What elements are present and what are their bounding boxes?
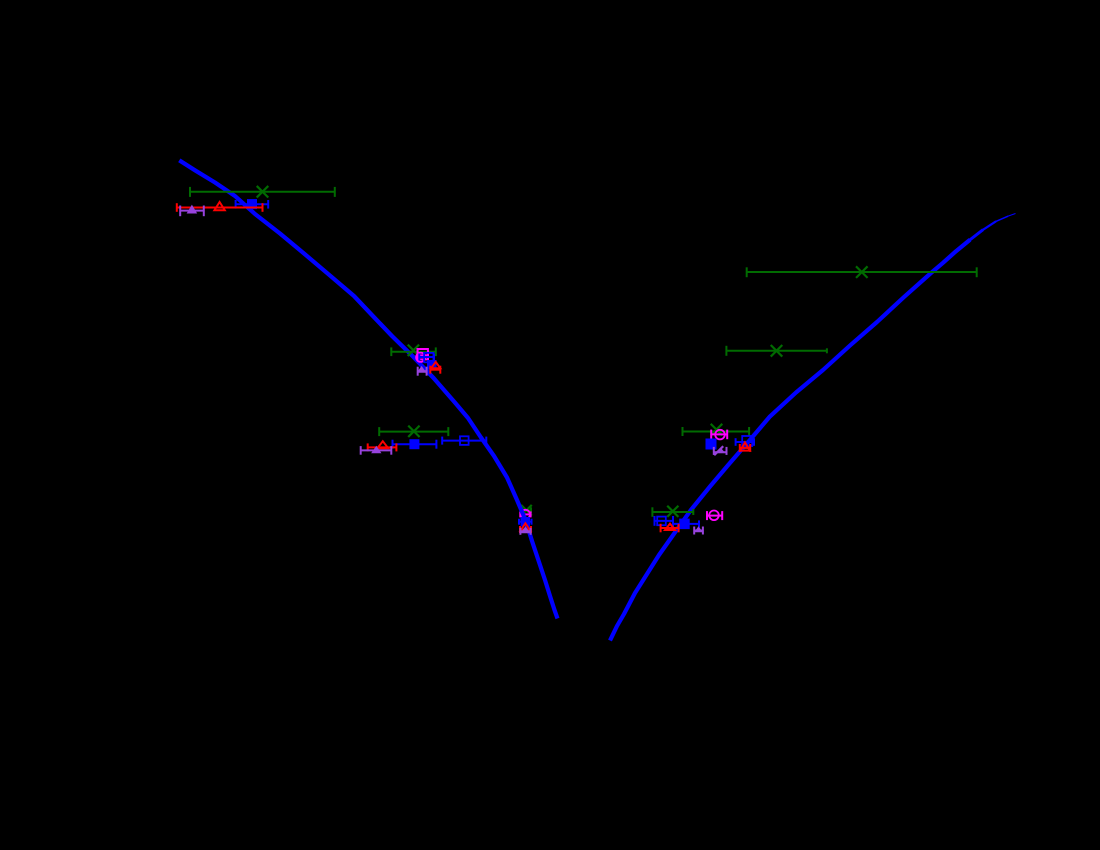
cluster1 blue filled square [247, 199, 257, 209]
cluster2 blue filled square [427, 360, 437, 370]
cluster8 blue error bar open [655, 516, 674, 526]
cluster3 green X marker [409, 426, 419, 436]
cluster7 green X marker [712, 425, 722, 435]
cluster4 violet error bar [520, 528, 530, 535]
cluster3 red open triangle [377, 441, 388, 448]
cluster4 red open triangle [520, 523, 530, 530]
cluster7 blue open square [742, 436, 752, 446]
cluster4 green error bar [522, 507, 532, 513]
cluster1 red error bar [177, 203, 263, 212]
right blue theory curve taper segment 2 [982, 221, 996, 230]
cluster7 violet slash stroke [714, 446, 723, 455]
cluster7 violet filled triangle [717, 448, 725, 453]
cluster8 red open triangle [665, 524, 675, 530]
cluster8 magenta open circle [709, 511, 719, 521]
cluster1 green error bar [190, 187, 335, 197]
cluster1 red open triangle [214, 202, 224, 210]
cluster3 violet error bar [361, 446, 392, 455]
cluster7 red error bar [740, 444, 750, 452]
cluster1 violet error bar [180, 206, 204, 217]
right blue theory curve thin tip [1007, 214, 1016, 217]
cluster2 blue error bar [419, 354, 434, 361]
cluster7 red open triangle [740, 442, 750, 450]
cluster8 magenta error bar [707, 511, 722, 520]
cluster2 red open triangle [431, 362, 440, 368]
cluster6 green error bar [726, 346, 827, 356]
cluster4 green X marker [522, 506, 531, 515]
cluster2 violet filled triangle [417, 366, 427, 373]
cluster3 blue open square [460, 436, 469, 445]
cluster2 green X marker [409, 345, 419, 355]
cluster4 violet filled triangle [520, 526, 530, 533]
cluster7 green error bar [683, 427, 750, 436]
cluster3 green error bar [379, 427, 448, 436]
cluster1 violet filled triangle [187, 205, 198, 214]
cluster8 blue open square [657, 517, 666, 526]
cluster4 blue error bar [519, 519, 532, 525]
cluster2 violet error bar [418, 367, 427, 376]
cluster4 blue filled square [521, 517, 531, 527]
cluster8 violet filled triangle [694, 526, 703, 532]
cluster4 red error bar [520, 526, 531, 533]
left blue theory curve [179, 160, 557, 618]
cluster1 blue error bar [236, 200, 269, 209]
cluster8 violet error bar [694, 527, 703, 535]
cluster2 blue open square [424, 353, 433, 362]
cluster7 blue error bar open [736, 438, 754, 446]
cluster8 green error bar [652, 507, 693, 517]
cluster7 magenta open circle [715, 430, 725, 440]
cluster5 green error bar [747, 267, 977, 277]
cluster7 magenta error bar [711, 430, 727, 440]
cluster3 blue error bar filled [393, 440, 437, 449]
right blue theory curve [610, 240, 970, 641]
cluster2 green error bar [391, 347, 436, 356]
cluster8 red error bar [661, 524, 679, 533]
cluster3 red error bar [368, 443, 397, 451]
cluster3 violet filled triangle [371, 446, 381, 453]
right blue theory curve taper segment [969, 230, 983, 241]
cluster4 magenta error bar [520, 511, 530, 517]
cluster5 green X marker [857, 267, 867, 277]
cluster7 violet error bar [714, 447, 727, 455]
cluster1 green X marker [258, 187, 268, 197]
cluster3 blue filled square [409, 439, 419, 449]
cluster6 green X marker [772, 346, 782, 356]
cluster8 blue filled square [679, 519, 690, 530]
cluster4 magenta open circle [521, 510, 530, 519]
cluster3 blue error bar open [442, 437, 486, 445]
cluster7 blue filled square [706, 439, 717, 450]
cluster2 magenta open square [418, 349, 428, 359]
right blue theory curve taper segment 3 [995, 216, 1008, 222]
cluster2 red error bar [430, 366, 440, 374]
cluster8 blue error bar filled [673, 520, 699, 527]
cluster2 magenta error bar [418, 350, 428, 361]
cluster2 magenta open circle [416, 353, 425, 362]
cluster8 green X marker [668, 507, 678, 517]
